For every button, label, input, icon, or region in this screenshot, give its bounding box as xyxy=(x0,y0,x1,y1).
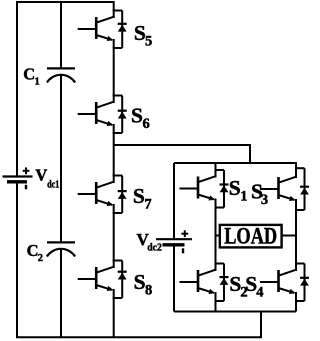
diode of S7 antiparallel diode xyxy=(118,191,127,199)
svg-text:dc1: dc1 xyxy=(47,179,59,190)
label Vdc2 xyxy=(137,230,162,253)
svg-text:S: S xyxy=(131,103,143,127)
wire H-bridge left rail top to battery Vdc2 xyxy=(173,163,175,239)
svg-text:C: C xyxy=(27,241,39,260)
wire capacitor rail bottom: C2 to bottom rail xyxy=(60,249,62,337)
svg-text:1: 1 xyxy=(240,189,247,205)
diode of S8 antiparallel diode xyxy=(118,272,127,280)
diode of S1 antiparallel diode xyxy=(220,185,229,193)
wire S5 emitter to S6 collector xyxy=(113,48,115,97)
transistor S1 xyxy=(180,170,229,208)
label C1 xyxy=(23,64,39,87)
transistor S5 xyxy=(78,11,127,49)
diode of S3 antiparallel xyxy=(300,187,309,195)
battery Vdc2 xyxy=(156,230,192,253)
transistor S6 body (IGBT) xyxy=(78,96,123,134)
transistor S7 body (IGBT) xyxy=(78,176,123,214)
svg-text:8: 8 xyxy=(145,282,152,298)
wire H-bridge bottom rail xyxy=(174,311,296,313)
wire S8 emitter to bottom rail xyxy=(113,298,115,338)
wire left rail below battery Vdc1 to bottom rail and up to H-bridge bottom xyxy=(17,182,261,338)
LOAD box xyxy=(220,225,282,248)
transistor S3 xyxy=(260,168,309,210)
svg-text:4: 4 xyxy=(256,284,263,300)
wire capacitor rail top: top rail to C1 xyxy=(60,2,62,68)
label S2 S4 xyxy=(229,272,263,301)
svg-text:6: 6 xyxy=(143,116,150,132)
svg-text:3: 3 xyxy=(261,192,268,208)
wire H-bridge top rail to S3 collector xyxy=(174,163,296,171)
wire LOAD left lead xyxy=(216,235,221,237)
svg-text:V: V xyxy=(35,166,47,185)
transistor S7 xyxy=(78,176,127,214)
label S6 xyxy=(131,103,150,132)
svg-text:7: 7 xyxy=(144,196,151,212)
transistor S5 body (IGBT) xyxy=(78,11,123,49)
diode of S2 antiparallel diode xyxy=(220,277,229,285)
svg-text:LOAD: LOAD xyxy=(224,223,277,249)
wire node A to H-bridge top rail xyxy=(114,145,250,163)
label S5 xyxy=(134,21,152,50)
svg-text:5: 5 xyxy=(145,34,152,50)
wire H-bridge left rail below battery Vdc2 to bottom rail xyxy=(173,245,175,311)
transistor S4 xyxy=(260,264,309,302)
svg-text:2: 2 xyxy=(38,253,43,264)
diode of S5 antiparallel diode xyxy=(118,24,127,32)
wire S4 emitter to bottom rail xyxy=(295,301,297,312)
transistor S1 body (IGBT) xyxy=(180,170,225,208)
diode of S4 antiparallel diode xyxy=(300,278,309,286)
svg-text:C: C xyxy=(23,64,35,83)
transistor S2 body (IGBT) xyxy=(180,264,225,302)
wire S2 emitter to bottom rail xyxy=(215,301,217,312)
wire S3 emitter to S4 collector xyxy=(295,208,297,264)
battery Vdc1 xyxy=(3,167,33,189)
wire capacitor rail middle: C1 to C2 xyxy=(60,75,62,242)
transistor S4 body (IGBT) xyxy=(260,264,305,302)
transistor S8 xyxy=(78,261,127,299)
wire top rail from left rail to S5 collector xyxy=(17,2,114,176)
transistor S8 body (IGBT) xyxy=(78,261,123,299)
wire LOAD right lead xyxy=(282,235,297,237)
transistor S2 xyxy=(180,264,229,302)
svg-text:S: S xyxy=(133,184,145,208)
wire S6 emitter to S7 collector through node A xyxy=(113,133,115,177)
label S1 xyxy=(229,176,248,205)
transistor S6 xyxy=(78,96,127,134)
label C2 xyxy=(27,241,43,264)
label S7 xyxy=(133,184,152,213)
label Vdc1 xyxy=(35,166,59,191)
wire S1 collector stub from top rail xyxy=(215,163,217,171)
svg-text:dc2: dc2 xyxy=(147,242,162,253)
label S3 xyxy=(251,179,268,208)
capacitor C1 xyxy=(47,68,75,82)
svg-text:S: S xyxy=(134,270,146,294)
wire S7 emitter to S8 collector xyxy=(113,213,115,262)
label S8 xyxy=(134,270,153,299)
diode of S6 antiparallel diode xyxy=(118,111,127,119)
svg-text:S: S xyxy=(229,176,241,200)
capacitor C2 xyxy=(47,242,75,256)
wire S1 emitter to S2 collector xyxy=(215,208,217,264)
svg-text:1: 1 xyxy=(35,76,40,87)
